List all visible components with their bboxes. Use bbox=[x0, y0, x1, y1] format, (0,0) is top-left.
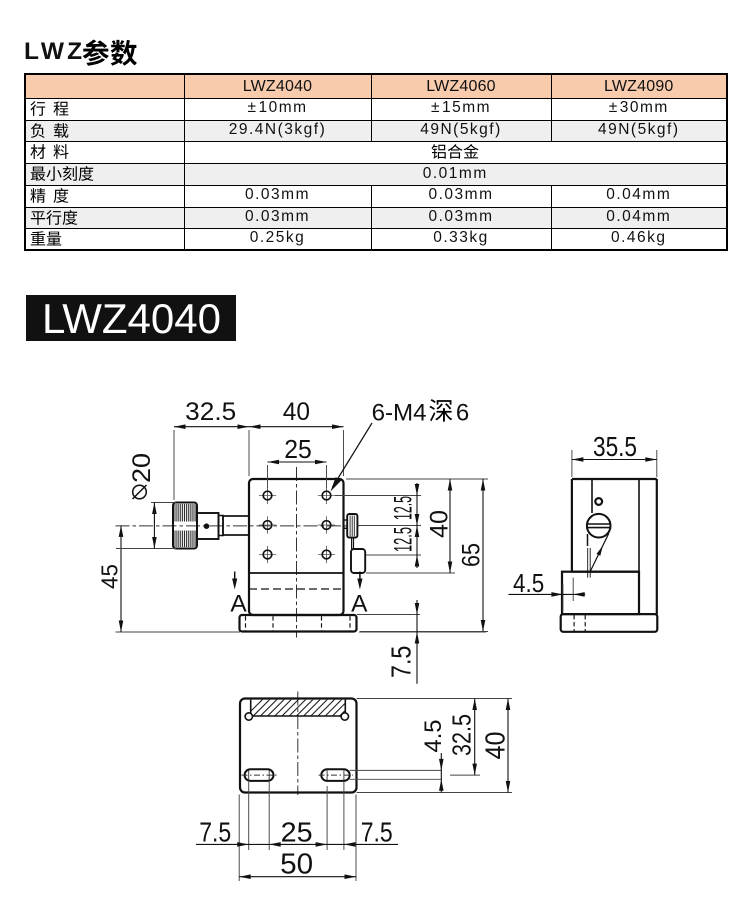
svg-text:40: 40 bbox=[426, 510, 454, 538]
svg-text:6: 6 bbox=[456, 400, 469, 427]
svg-text:7.5: 7.5 bbox=[385, 646, 416, 678]
svg-text:4.5: 4.5 bbox=[420, 720, 447, 753]
svg-text:12.5: 12.5 bbox=[390, 527, 418, 552]
svg-text:25: 25 bbox=[284, 434, 312, 464]
svg-text:65: 65 bbox=[458, 543, 486, 567]
svg-text:40: 40 bbox=[480, 732, 511, 760]
svg-text:32.5: 32.5 bbox=[447, 714, 477, 756]
svg-text:45: 45 bbox=[97, 564, 123, 589]
svg-text:35.5: 35.5 bbox=[593, 431, 637, 462]
svg-text:7.5: 7.5 bbox=[199, 816, 231, 847]
svg-text:7.5: 7.5 bbox=[361, 816, 393, 847]
svg-text:50: 50 bbox=[280, 849, 313, 881]
svg-text:4.5: 4.5 bbox=[513, 568, 544, 598]
svg-text:A: A bbox=[351, 591, 368, 618]
svg-text:40: 40 bbox=[283, 398, 310, 426]
svg-text:32.5: 32.5 bbox=[185, 398, 236, 426]
svg-text:12.5: 12.5 bbox=[390, 496, 418, 520]
svg-text:A: A bbox=[230, 591, 247, 618]
svg-text:20: 20 bbox=[128, 453, 156, 483]
svg-text:25: 25 bbox=[281, 816, 313, 847]
svg-text:6-M4: 6-M4 bbox=[372, 400, 427, 427]
